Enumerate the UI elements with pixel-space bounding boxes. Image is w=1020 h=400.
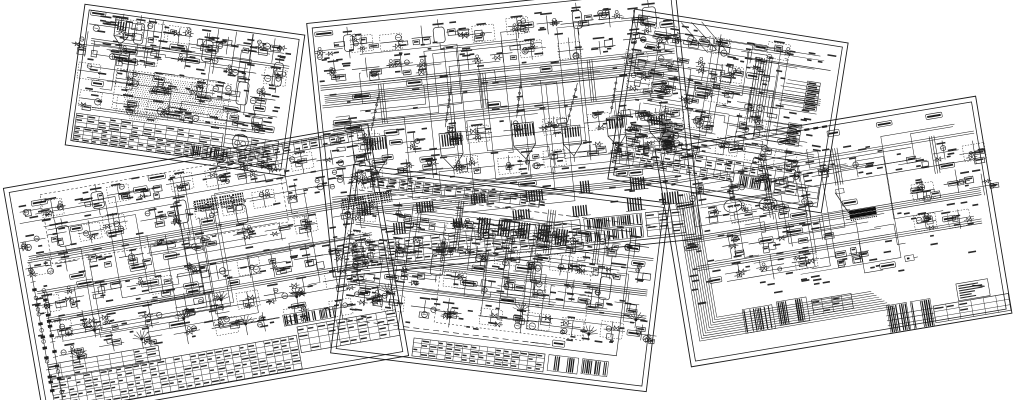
line label C6 xyxy=(333,119,351,126)
valve E4 xyxy=(744,127,749,132)
spray nozzle D4 xyxy=(587,333,590,336)
barcode C1 xyxy=(584,213,643,230)
instrument A16 xyxy=(87,64,92,69)
valve A1 xyxy=(82,105,91,111)
equipment list table B xyxy=(48,345,161,379)
instrument F7 xyxy=(714,210,719,215)
instrument A20 xyxy=(217,96,223,98)
sheet F outer border xyxy=(655,96,1012,367)
instrument B6 xyxy=(181,183,190,191)
valve B1 xyxy=(45,304,50,309)
hopper C2 xyxy=(439,132,463,156)
line label D2 xyxy=(536,254,550,261)
line label B8 xyxy=(106,228,123,236)
valve C21 xyxy=(643,147,650,149)
valve D8 xyxy=(578,298,588,303)
riser pipes F xyxy=(761,163,768,202)
barcode F3 xyxy=(886,302,910,333)
riser pipes A xyxy=(144,19,150,59)
valve B4 xyxy=(139,281,144,286)
line label A2 xyxy=(206,46,218,54)
drawing number label C xyxy=(315,30,333,36)
line label C18 xyxy=(629,169,643,176)
instrument D7 xyxy=(539,229,545,231)
instrument D2 xyxy=(404,214,411,222)
barcode C2 xyxy=(585,226,644,243)
pipe bundle C2 xyxy=(322,69,676,106)
line label E5 xyxy=(695,85,711,93)
line label B16 xyxy=(77,279,94,288)
line label C4 xyxy=(389,139,402,145)
instrument A13 xyxy=(226,68,231,73)
feed conveyor C5 xyxy=(607,77,621,114)
vessel C4 xyxy=(642,7,657,26)
pump F1 xyxy=(723,198,743,214)
valve B29 xyxy=(257,319,265,322)
title block table A2 xyxy=(73,126,277,169)
instrument C7 xyxy=(520,27,526,32)
riser pipes C1 xyxy=(378,84,382,124)
wire routing D xyxy=(368,208,454,258)
dosing chain B2 xyxy=(44,290,63,398)
valve F6 xyxy=(922,161,929,168)
valve B2 xyxy=(71,302,77,307)
line label D14 xyxy=(627,330,641,337)
line label C9 xyxy=(382,154,393,160)
instrument D8 xyxy=(575,242,584,249)
wire routing F xyxy=(816,218,883,279)
instrument C22 xyxy=(661,37,667,43)
border label F3 xyxy=(778,138,791,145)
pipe bundle E4 xyxy=(637,70,821,99)
line label B12 xyxy=(130,263,147,272)
valve D20 xyxy=(636,327,646,332)
instrument E14 xyxy=(684,98,690,104)
conveyor wedge F xyxy=(849,207,876,215)
instrument A5 xyxy=(200,44,212,52)
valve A4 xyxy=(183,115,193,123)
valve B3 xyxy=(100,283,108,286)
instrument D3 xyxy=(429,224,435,230)
title block table D xyxy=(412,338,545,372)
barcode E1 xyxy=(738,175,771,192)
hatched area A2 xyxy=(209,99,225,101)
stamp circle A xyxy=(231,133,249,151)
instrument F4 xyxy=(803,175,809,177)
index strip E xyxy=(614,142,796,182)
vessel A4 xyxy=(271,62,283,87)
valve B17 xyxy=(188,308,195,311)
instrument E16 xyxy=(748,104,752,106)
pipe run A1 xyxy=(91,38,289,66)
tube bundle D5 xyxy=(555,229,558,245)
spray nozzle B1 xyxy=(93,329,96,332)
spray nozzle D1 xyxy=(386,291,389,294)
line label C16 xyxy=(616,170,628,176)
tube bundle D1 xyxy=(477,217,480,233)
line label A11 xyxy=(123,48,138,55)
line label F7 xyxy=(676,201,695,209)
valve C20 xyxy=(615,149,621,153)
pipe bundle C3 xyxy=(332,89,670,125)
vessel D2 xyxy=(530,262,543,284)
line label D12 xyxy=(586,304,599,311)
line label C17 xyxy=(406,79,422,86)
vessel B1 xyxy=(91,191,105,209)
instrument A9 xyxy=(75,42,79,46)
hatched area A3 xyxy=(130,107,160,111)
valve B27 xyxy=(191,325,197,331)
valve C5 xyxy=(477,128,485,133)
border label F1 xyxy=(679,153,696,160)
line label E10 xyxy=(714,39,730,47)
spray nozzle D3 xyxy=(520,309,523,312)
feed conveyor C3 xyxy=(513,81,525,118)
line label A6 xyxy=(257,125,275,133)
pipe run F2 xyxy=(686,159,974,207)
valve B5 xyxy=(166,288,175,291)
instrument C16 xyxy=(459,53,464,55)
valve C19 xyxy=(596,146,606,153)
instrument B31 xyxy=(244,234,250,240)
instrument A15 xyxy=(276,74,281,76)
line label F8 xyxy=(786,228,803,235)
dosing chain B1 xyxy=(30,262,53,395)
line label A14 xyxy=(112,54,128,61)
valve D12 xyxy=(385,307,391,309)
instrument D11 xyxy=(363,234,369,236)
instrument E4 xyxy=(710,46,716,51)
valve B30 xyxy=(300,315,306,318)
border label F2 xyxy=(728,145,744,153)
line label C14 xyxy=(660,21,675,28)
line label C15 xyxy=(651,81,668,87)
valve C3 xyxy=(410,145,415,150)
feed conveyor C4 xyxy=(563,83,581,122)
tube bundle C10 xyxy=(572,206,574,216)
valve C9 xyxy=(618,117,622,121)
valve C17 xyxy=(534,162,541,169)
instrument D12 xyxy=(396,253,404,257)
instrument E7 xyxy=(638,59,646,67)
instrument B21 xyxy=(259,192,265,198)
valve B14 xyxy=(80,318,87,321)
valve C18 xyxy=(554,150,562,152)
line label B2 xyxy=(133,185,148,193)
valve F3 xyxy=(806,262,811,264)
instrument D17 xyxy=(527,262,535,267)
instrument B11 xyxy=(336,161,344,164)
line label A4 xyxy=(153,76,166,83)
line label A9 xyxy=(253,105,265,112)
instrument E5 xyxy=(755,57,762,62)
valve C7 xyxy=(559,123,567,128)
line label F3 xyxy=(942,215,955,222)
line label E2 xyxy=(654,31,672,39)
tube bundle D4 xyxy=(537,224,540,240)
line label C7 xyxy=(487,101,501,108)
spray nozzle B2 xyxy=(140,338,143,341)
instrument B9 xyxy=(267,163,275,166)
line label E12 xyxy=(695,92,708,99)
valve D18 xyxy=(560,330,564,334)
vessel D1 xyxy=(430,254,445,276)
valve D16 xyxy=(514,322,521,329)
instrument B5 xyxy=(143,189,151,197)
valve F12 xyxy=(925,214,929,218)
valve E8 xyxy=(692,146,700,149)
instrument A18 xyxy=(164,90,169,95)
tube bundle C12 xyxy=(661,193,664,205)
line label E11 xyxy=(627,127,640,134)
instrument A10 xyxy=(116,59,123,66)
valve A3 xyxy=(161,109,167,115)
valve B13 xyxy=(59,324,65,330)
line label F5 xyxy=(685,244,700,251)
instrument F2 xyxy=(727,190,731,192)
instrument A8 xyxy=(270,45,281,51)
line label F2 xyxy=(842,199,858,207)
barcode A xyxy=(190,144,227,160)
line label B4 xyxy=(148,173,166,181)
instrument B26 xyxy=(62,256,69,259)
tube bundle C7 xyxy=(393,223,395,235)
vessel B3 xyxy=(235,204,248,224)
instrument C10 xyxy=(605,10,609,14)
line label B10 xyxy=(200,204,214,212)
valve E1 xyxy=(639,113,645,119)
valve E7 xyxy=(666,142,671,147)
pipe run A2 xyxy=(89,91,277,117)
spray nozzle B4 xyxy=(244,323,247,326)
instrument A12 xyxy=(189,56,195,58)
valve B28 xyxy=(230,321,240,329)
valve B6 xyxy=(187,266,192,271)
pipe bundle E1 xyxy=(747,57,757,122)
title block table B xyxy=(50,335,302,400)
line label E9 xyxy=(746,72,759,80)
instrument C15 xyxy=(420,62,425,67)
instrument C21 xyxy=(631,32,639,38)
border label F4 xyxy=(827,129,840,137)
sheet F inner border xyxy=(661,102,1006,361)
valve D17 xyxy=(542,317,551,322)
valve C15 xyxy=(474,168,481,174)
valve B18 xyxy=(210,304,218,307)
line label C11 xyxy=(518,22,534,29)
instrument E1 xyxy=(638,32,646,35)
pipe bundle C1 xyxy=(320,49,674,86)
barcode F2 xyxy=(776,297,810,326)
tube bundle C5 xyxy=(580,181,583,193)
title block table E xyxy=(774,180,819,199)
annotation text E xyxy=(794,160,799,162)
arrow label D xyxy=(552,340,565,347)
line label E6 xyxy=(652,88,666,95)
valve C2 xyxy=(363,137,368,142)
sheet C inner border xyxy=(312,0,696,272)
title block table C xyxy=(343,220,582,269)
title block table C2 xyxy=(645,209,685,237)
tube bundle C9 xyxy=(512,210,514,220)
tube bundle D2 xyxy=(497,219,500,235)
valve B20 xyxy=(273,288,278,293)
filter bank B1 xyxy=(193,199,206,212)
instrument B13 xyxy=(21,243,27,249)
valve B12 xyxy=(367,252,373,258)
instrument B27 xyxy=(90,254,97,262)
instrument D13 xyxy=(419,243,424,248)
valve D9 xyxy=(595,290,600,295)
line label C2 xyxy=(384,129,399,136)
valve F13 xyxy=(967,222,973,225)
tube bundle C2 xyxy=(416,202,418,213)
line label D1 xyxy=(358,290,370,296)
instrument B23 xyxy=(317,183,324,190)
signal label stack E2 xyxy=(788,123,801,128)
pipe bundle F4 xyxy=(697,219,981,267)
border ticks F xyxy=(786,131,791,134)
instrument A21 xyxy=(257,88,262,93)
valve C10 xyxy=(671,110,680,116)
line label A13 xyxy=(91,80,103,87)
sheet D inner border xyxy=(336,170,664,386)
instrument C4 xyxy=(422,37,430,44)
line label C3 xyxy=(420,156,435,163)
tube bundle D3 xyxy=(517,222,520,238)
annotation text D xyxy=(488,322,497,325)
vessel C1 xyxy=(343,34,354,51)
instrument C5 xyxy=(464,32,469,37)
instrument B18 xyxy=(174,220,179,225)
barcode F1 xyxy=(742,305,776,334)
instrument B2 xyxy=(46,211,52,217)
instrument D21 xyxy=(642,273,650,280)
instrument D16 xyxy=(508,259,517,262)
border label F5 xyxy=(876,120,892,127)
instrument F11 xyxy=(731,235,739,243)
valve E10 xyxy=(758,154,766,161)
valve F5 xyxy=(852,255,861,263)
instrument D9 xyxy=(608,249,617,257)
sheet E inner border xyxy=(614,15,843,207)
pipe run B1 xyxy=(20,163,365,224)
valve C12 xyxy=(370,178,374,182)
hatched area boundary A xyxy=(112,68,231,124)
instrument B30 xyxy=(191,243,197,249)
valve D2 xyxy=(401,274,408,280)
sheet C outer border xyxy=(307,0,702,277)
valve D4 xyxy=(458,274,463,279)
drawing number label E xyxy=(640,20,657,27)
notes table F xyxy=(812,293,854,314)
pump F2 xyxy=(758,196,778,212)
instrument C6 xyxy=(480,32,484,36)
line label B13 xyxy=(228,279,240,286)
valve D10 xyxy=(619,300,625,302)
line label D7 xyxy=(537,243,549,249)
instrument C1 xyxy=(334,42,345,48)
line label A1 xyxy=(150,88,167,95)
revision table A xyxy=(223,134,278,154)
valve D11 xyxy=(354,292,359,297)
instrument B15 xyxy=(89,234,94,239)
instrument D18 xyxy=(568,266,573,271)
valve E2 xyxy=(666,113,675,116)
valve D1 xyxy=(352,261,359,268)
instrument E8 xyxy=(678,58,689,64)
vessel A3 xyxy=(236,81,250,105)
valve E3 xyxy=(700,114,710,122)
instrument C20 xyxy=(603,51,608,53)
valve B23 xyxy=(359,279,364,281)
spray nozzle B7 xyxy=(220,298,223,301)
instrument B29 xyxy=(159,239,164,241)
title block table A xyxy=(75,113,223,146)
line label F6 xyxy=(939,162,955,169)
spray nozzle B5 xyxy=(295,295,298,298)
line label D5 xyxy=(500,297,516,305)
line label F9 xyxy=(790,211,807,218)
instrument A17 xyxy=(129,83,133,85)
instrument E2 xyxy=(672,37,679,44)
valve D14 xyxy=(443,314,448,319)
spray nozzle D2 xyxy=(449,316,452,319)
spray nozzle B3 xyxy=(182,317,185,320)
instrument C13 xyxy=(369,73,379,81)
feed conveyor C1 xyxy=(367,92,383,131)
instrument D5 xyxy=(478,233,483,238)
instrument D4 xyxy=(466,221,474,228)
valve F9 xyxy=(931,191,941,199)
line label D6 xyxy=(568,263,580,269)
valve D19 xyxy=(606,326,612,332)
drawing number label A xyxy=(91,10,107,17)
line label B1 xyxy=(70,225,82,232)
instrument F8 xyxy=(744,208,749,213)
spray nozzle D5 xyxy=(635,319,638,322)
barcode F4 xyxy=(910,299,934,330)
instrument A14 xyxy=(238,71,245,74)
title block table B2 xyxy=(297,310,400,353)
valve F2 xyxy=(762,266,767,271)
valve A2 xyxy=(127,100,137,107)
instrument F13 xyxy=(779,236,784,241)
instrument F10 xyxy=(801,198,807,204)
instrument E17 xyxy=(775,104,783,107)
valve D6 xyxy=(514,285,524,291)
valve E9 xyxy=(721,145,725,149)
valve F10 xyxy=(959,179,966,184)
instrument E15 xyxy=(707,92,712,97)
sheet B inner border xyxy=(9,130,403,400)
spray nozzle B6 xyxy=(78,356,81,359)
instrument B25 xyxy=(34,264,41,267)
vessel C3 xyxy=(572,10,583,29)
instrument C2 xyxy=(360,37,367,43)
valve C13 xyxy=(407,178,412,180)
valve E11 xyxy=(784,164,792,171)
pipe run B3 xyxy=(55,283,365,338)
battery limit boundary D xyxy=(398,205,632,356)
instrument B8 xyxy=(255,175,266,183)
valve C11 xyxy=(349,181,353,183)
hopper A1 xyxy=(114,20,130,38)
pipe run A3 xyxy=(92,107,265,131)
line label D9 xyxy=(472,265,486,272)
legend box F xyxy=(956,279,990,301)
line label C13 xyxy=(352,93,370,100)
